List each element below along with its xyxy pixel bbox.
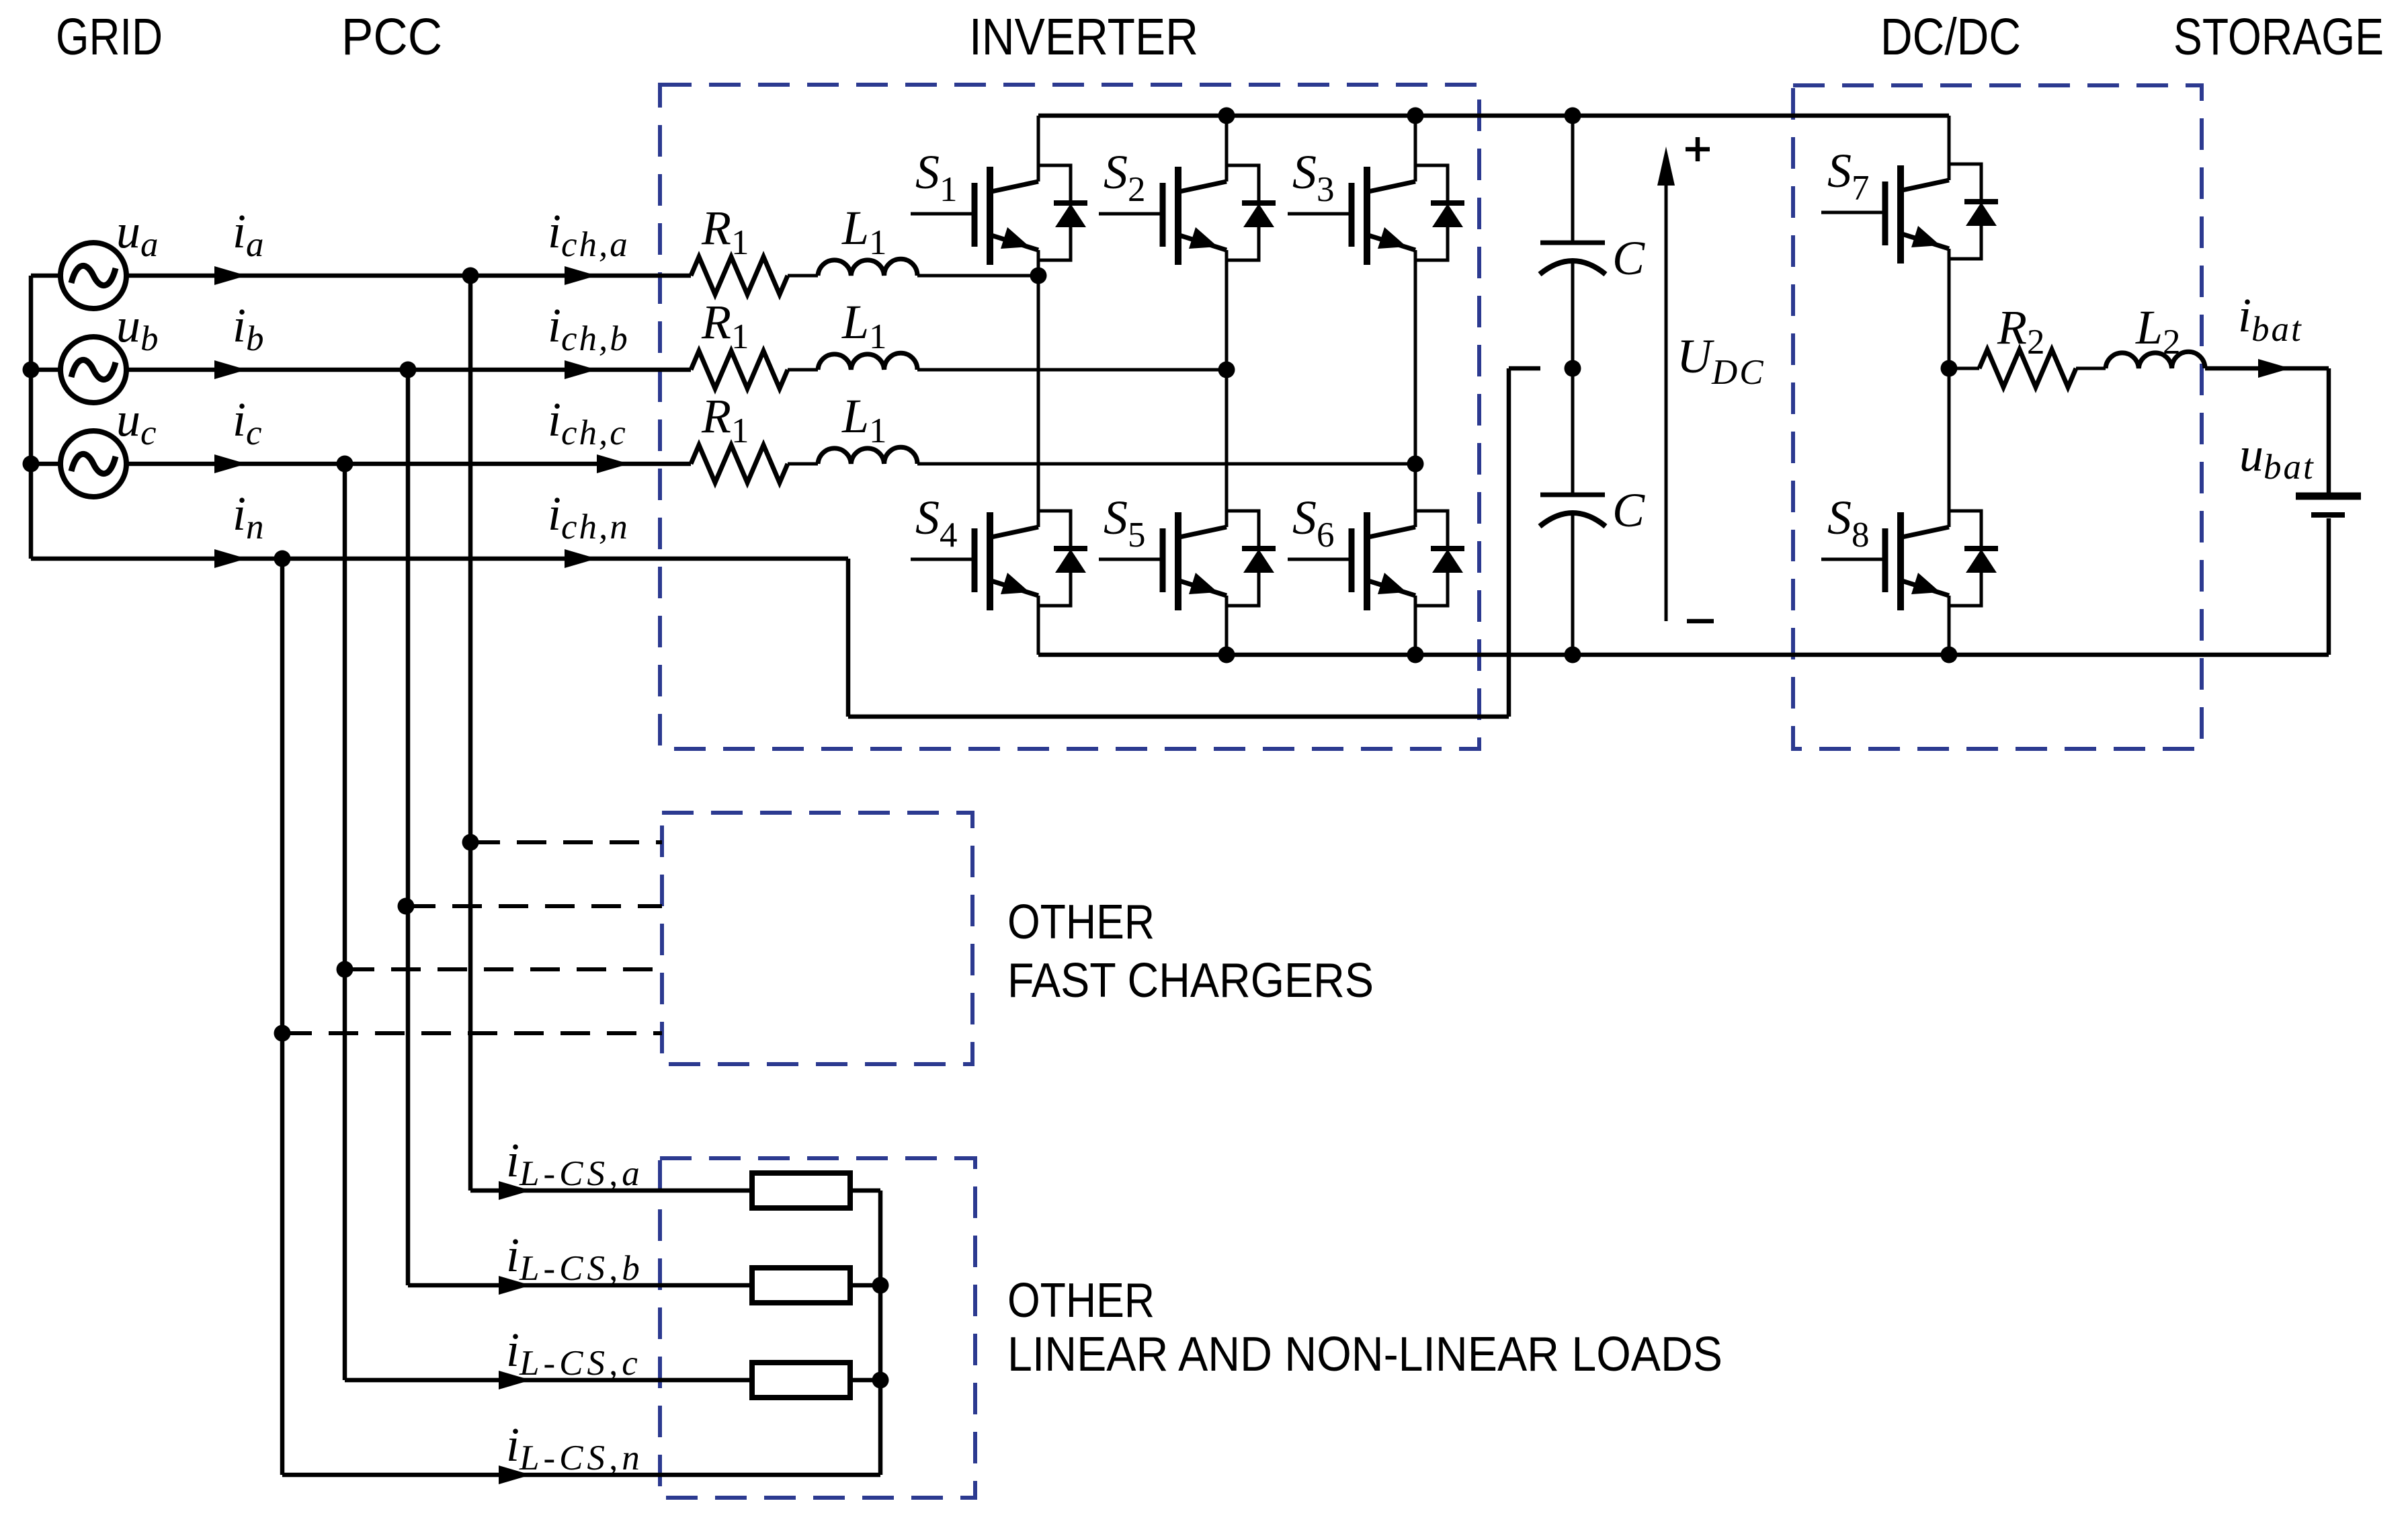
wire phase a to S1 leg (917, 274, 1038, 278)
svg-text:S5: S5 (1104, 491, 1146, 555)
pcc drop phase b (406, 370, 411, 1285)
node leg c (1407, 456, 1424, 473)
Udc arrow head (1657, 147, 1675, 186)
svg-text:iL-CS,c: iL-CS,c (506, 1323, 642, 1383)
wire R2 to L2 (2076, 367, 2106, 370)
svg-text:ich,b: ich,b (548, 298, 630, 358)
arrow ich_a (565, 266, 597, 285)
Udc plus sign (1686, 137, 1710, 161)
svg-text:S1: S1 (915, 145, 958, 209)
arrow iLCS n (499, 1465, 531, 1484)
wire phase b (31, 368, 691, 372)
node leg b (1218, 362, 1235, 378)
wire load a stub (850, 1188, 880, 1193)
arrow iLCS c (499, 1371, 531, 1389)
arrow iLCS b (499, 1276, 531, 1295)
wire phase b filter link (788, 368, 818, 372)
S5 collector leg (1225, 370, 1229, 527)
S4 collector leg (1037, 276, 1040, 527)
dc top rail (1038, 114, 1949, 118)
wire dc midpoint link (1509, 366, 1540, 371)
load resistor b (752, 1268, 850, 1303)
node grid b (23, 362, 40, 378)
node pcc n (274, 551, 291, 567)
svg-text:C: C (1612, 231, 1645, 285)
svg-text:R2: R2 (1997, 300, 2044, 362)
source ua (60, 243, 126, 309)
wire neutral (31, 557, 848, 561)
node grid c (23, 456, 40, 473)
dashed tap neutral (282, 1031, 662, 1035)
arrow ich_c (597, 454, 629, 473)
S7 emitter leg (1948, 259, 1951, 368)
node load c (872, 1372, 889, 1389)
transistor S5 (1099, 511, 1276, 610)
svg-text:INVERTER: INVERTER (969, 8, 1198, 66)
resistor R2 (1979, 350, 2076, 387)
other loads box (660, 1158, 975, 1498)
svg-text:ich,a: ich,a (548, 204, 630, 264)
wire iLCS n (282, 1473, 880, 1478)
svg-text:ich,c: ich,c (548, 393, 628, 452)
svg-text:ub: ub (116, 298, 161, 358)
svg-text:ubat: ubat (2239, 428, 2315, 487)
node tap n (274, 1025, 291, 1042)
svg-text:S7: S7 (1827, 144, 1870, 208)
inductor L1 phase c (818, 447, 917, 464)
inverter box (660, 85, 1479, 749)
S5 emitter leg (1225, 606, 1229, 655)
transistor S6 (1288, 511, 1464, 610)
inductor L1 phase a (818, 259, 917, 276)
svg-text:L1: L1 (841, 295, 887, 356)
svg-text:UDC: UDC (1677, 329, 1766, 392)
svg-text:ia: ia (233, 204, 266, 264)
S8 collector leg (1948, 368, 1951, 527)
load common vertical (878, 1191, 883, 1475)
wire phase a filter link (788, 274, 818, 278)
node tap b (398, 898, 415, 915)
capacitor C top curved plate (1540, 261, 1606, 274)
svg-text:ib: ib (233, 298, 266, 358)
svg-text:iL-CS,n: iL-CS,n (506, 1418, 644, 1478)
svg-text:ibat: ibat (2238, 288, 2303, 349)
dc/dc box (1793, 85, 2202, 749)
wire S7S8 mid to R2 (1949, 367, 1979, 370)
capacitor bottom lead (1571, 516, 1575, 655)
wire iLCS c (345, 1378, 752, 1383)
S8 emitter leg (1948, 606, 1951, 655)
wire neutral run to dc midpoint (848, 715, 1509, 719)
battery bottom lead (2327, 518, 2331, 655)
wire left grid bus (29, 276, 34, 559)
source uc (60, 431, 126, 497)
svg-text:iL-CS,a: iL-CS,a (506, 1133, 644, 1193)
node pcc c (337, 456, 354, 473)
svg-text:uc: uc (116, 393, 159, 452)
wire neutral drop (846, 559, 851, 717)
inductor L2 (2106, 352, 2205, 368)
svg-text:S4: S4 (915, 491, 958, 555)
wire phase b to S2 leg (917, 368, 1227, 372)
transistor S1 (911, 165, 1087, 265)
wire dc midpoint riser (1507, 368, 1511, 717)
svg-text:R1: R1 (701, 295, 749, 356)
svg-text:DC/DC: DC/DC (1880, 8, 2021, 66)
S1 collector leg (1037, 116, 1040, 182)
wire load c stub (850, 1378, 880, 1383)
svg-text:OTHER: OTHER (1007, 1274, 1155, 1328)
pcc drop phase c (343, 464, 347, 1380)
node S7S8 mid (1941, 360, 1958, 377)
svg-text:L1: L1 (841, 389, 887, 450)
arrow ibat (2258, 359, 2290, 378)
capacitor C top lead (1571, 116, 1575, 241)
svg-text:STORAGE: STORAGE (2173, 8, 2384, 66)
node load b (872, 1277, 889, 1294)
S6 emitter leg (1414, 606, 1417, 655)
transistor S7 (1821, 164, 1998, 264)
wire phase c filter link (788, 462, 818, 466)
svg-text:LINEAR AND NON-LINEAR LOADS: LINEAR AND NON-LINEAR LOADS (1007, 1328, 1722, 1381)
svg-text:FAST CHARGERS: FAST CHARGERS (1007, 954, 1374, 1008)
S7 collector leg (1948, 116, 1951, 180)
node pcc b (400, 362, 417, 378)
svg-text:S3: S3 (1292, 145, 1335, 209)
svg-text:ich,n: ich,n (548, 487, 630, 547)
Udc arrow line (1665, 175, 1668, 621)
capacitor C bottom plate (1540, 493, 1605, 497)
transistor S4 (911, 511, 1087, 610)
svg-text:S2: S2 (1104, 145, 1146, 209)
Udc minus sign (1687, 619, 1714, 624)
svg-text:R1: R1 (701, 389, 749, 450)
svg-text:GRID: GRID (56, 8, 163, 66)
node rail bottom S8 (1941, 647, 1958, 663)
resistor R1 phase b (691, 351, 788, 389)
arrow ich_n (565, 549, 597, 568)
battery top lead (2327, 368, 2331, 493)
svg-text:L2: L2 (2135, 300, 2181, 362)
node tap c (337, 961, 354, 978)
transistor S8 (1821, 511, 1998, 610)
node pcc a (462, 268, 479, 284)
S2 collector leg (1225, 116, 1229, 182)
node tap a (462, 834, 479, 851)
node rail bottom S5 (1218, 647, 1235, 663)
resistor R1 phase a (691, 257, 788, 294)
load resistor a (752, 1173, 850, 1208)
arrow ich_b (565, 360, 597, 379)
inductor L1 phase b (818, 353, 917, 370)
capacitor C top plate (1540, 241, 1605, 245)
node leg a (1030, 268, 1047, 284)
transistor S3 (1288, 165, 1464, 265)
arrow ia (214, 266, 247, 285)
S4 emitter leg (1037, 606, 1040, 655)
svg-text:PCC: PCC (341, 8, 442, 66)
battery short plate (2311, 512, 2345, 518)
node rail bottom C (1565, 647, 1581, 663)
svg-text:in: in (233, 487, 266, 547)
S1 emitter leg (1037, 260, 1040, 276)
wire L2 to battery (2205, 366, 2329, 371)
node rail top C (1565, 108, 1581, 124)
S6 collector leg (1414, 464, 1417, 527)
wire load b stub (850, 1283, 880, 1288)
svg-text:ic: ic (233, 393, 264, 452)
arrow in (214, 549, 247, 568)
wire iLCS a (470, 1188, 752, 1193)
other fast chargers box (662, 813, 972, 1064)
svg-text:L1: L1 (841, 201, 887, 262)
arrow ic (214, 454, 247, 473)
wire phase c to S3 leg (917, 462, 1415, 466)
S3 emitter leg (1414, 260, 1417, 464)
arrow iLCS a (499, 1181, 531, 1200)
pcc drop phase a (468, 276, 473, 1191)
dc bottom rail (1038, 653, 2329, 657)
load resistor c (752, 1363, 850, 1398)
wire phase c (31, 462, 691, 467)
svg-text:iL-CS,b: iL-CS,b (506, 1228, 644, 1288)
node dc midpoint (1565, 360, 1581, 377)
node rail top S2 (1218, 108, 1235, 124)
pcc drop neutral (280, 559, 285, 1475)
S2 emitter leg (1225, 260, 1229, 370)
arrow ib (214, 360, 247, 379)
dashed tap phase a (470, 840, 662, 844)
svg-text:S6: S6 (1292, 491, 1335, 555)
resistor R1 phase c (691, 445, 788, 483)
transistor S2 (1099, 165, 1276, 265)
svg-text:OTHER: OTHER (1007, 895, 1155, 949)
svg-text:C: C (1612, 483, 1645, 537)
svg-text:R1: R1 (701, 201, 749, 262)
node rail top S3 (1407, 108, 1424, 124)
dashed tap phase c (345, 967, 662, 971)
svg-text:S8: S8 (1827, 491, 1870, 555)
capacitor C bottom curved plate (1540, 513, 1606, 526)
source ub (60, 337, 126, 403)
wire phase a (31, 274, 691, 278)
dashed tap phase b (406, 904, 662, 908)
battery long plate (2296, 493, 2361, 500)
wire iLCS b (408, 1283, 752, 1288)
svg-text:ua: ua (116, 204, 161, 264)
S3 collector leg (1414, 116, 1417, 182)
capacitor mid lead (1571, 264, 1575, 493)
node rail bottom S6 (1407, 647, 1424, 663)
